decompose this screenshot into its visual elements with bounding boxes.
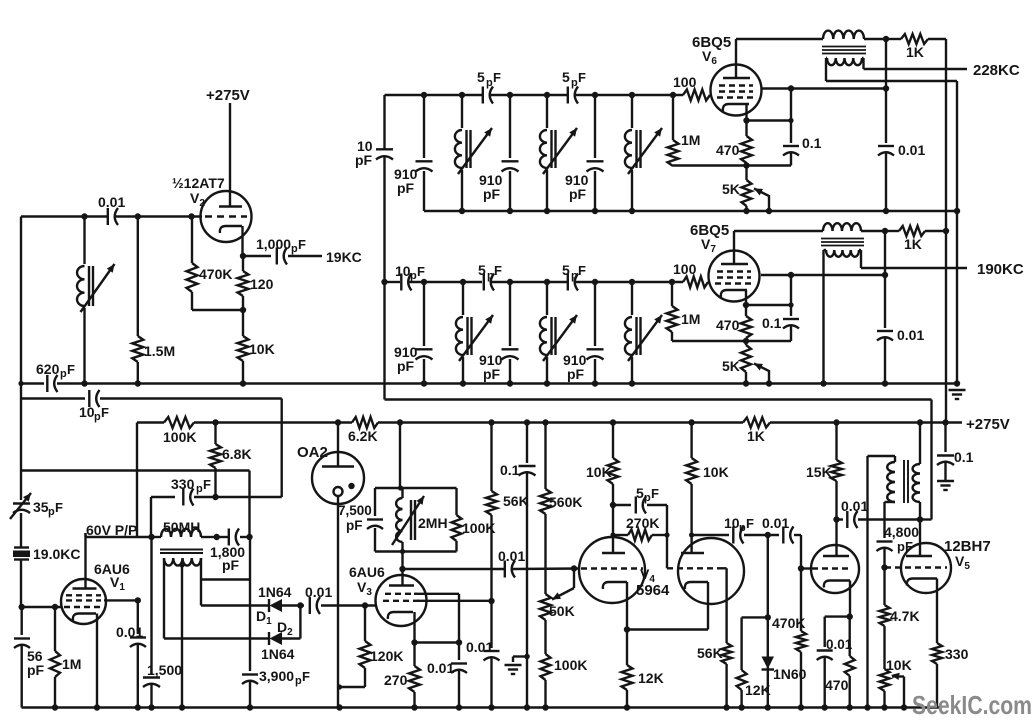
svg-text:10K: 10K — [886, 657, 912, 673]
svg-text:F: F — [203, 477, 211, 492]
svg-text:5: 5 — [562, 262, 570, 278]
svg-text:60V P/P: 60V P/P — [86, 522, 137, 538]
svg-text:10: 10 — [395, 263, 411, 279]
svg-text:+275V: +275V — [206, 87, 250, 104]
svg-text:6BQ5: 6BQ5 — [692, 34, 731, 51]
svg-text:100K: 100K — [554, 657, 587, 673]
svg-text:270: 270 — [384, 672, 408, 688]
svg-text:120: 120 — [250, 276, 274, 292]
svg-text:5: 5 — [478, 262, 486, 278]
svg-text:0.1: 0.1 — [500, 462, 520, 478]
svg-text:0.01: 0.01 — [841, 498, 868, 514]
svg-text:7,500: 7,500 — [338, 503, 372, 518]
svg-text:0.1: 0.1 — [802, 135, 822, 151]
svg-text:0.01: 0.01 — [98, 194, 125, 210]
svg-text:12K: 12K — [745, 682, 771, 698]
svg-text:0.01: 0.01 — [305, 584, 332, 600]
svg-text:6.2K: 6.2K — [348, 428, 378, 444]
svg-text:19.0KC: 19.0KC — [33, 546, 80, 562]
svg-text:p: p — [291, 243, 298, 255]
svg-text:0.01: 0.01 — [427, 660, 454, 676]
svg-text:pF: pF — [567, 366, 585, 382]
svg-text:F: F — [578, 263, 586, 278]
svg-text:F: F — [417, 264, 425, 279]
svg-text:p: p — [196, 483, 203, 495]
svg-text:10K: 10K — [703, 464, 729, 480]
svg-text:100K: 100K — [163, 429, 196, 445]
svg-text:12BH7: 12BH7 — [944, 538, 991, 555]
svg-text:1.5M: 1.5M — [144, 343, 175, 359]
svg-text:120K: 120K — [370, 648, 403, 664]
svg-text:0.01: 0.01 — [466, 639, 493, 655]
svg-text:6AU6: 6AU6 — [349, 564, 385, 580]
svg-text:6.8K: 6.8K — [222, 446, 252, 462]
svg-text:4,800: 4,800 — [884, 524, 919, 540]
svg-text:19KC: 19KC — [326, 249, 362, 265]
svg-text:5K: 5K — [722, 181, 740, 197]
svg-text:F: F — [67, 362, 75, 377]
svg-text:pF: pF — [397, 180, 415, 196]
svg-text:56K: 56K — [503, 493, 529, 509]
svg-text:470K: 470K — [199, 266, 232, 282]
svg-text:F: F — [494, 263, 502, 278]
svg-text:15K: 15K — [806, 464, 832, 480]
svg-text:+275V: +275V — [966, 416, 1010, 433]
svg-text:5: 5 — [636, 485, 644, 501]
svg-text:SeekIC.com: SeekIC.com — [912, 690, 1032, 720]
svg-text:0.1: 0.1 — [762, 315, 782, 331]
svg-text:p: p — [48, 506, 55, 518]
svg-text:pF: pF — [569, 186, 587, 202]
svg-text:pF: pF — [483, 186, 501, 202]
svg-text:pF: pF — [397, 358, 415, 374]
svg-text:p: p — [295, 675, 302, 687]
svg-text:10: 10 — [79, 404, 95, 420]
svg-text:50K: 50K — [549, 603, 575, 619]
svg-text:1N64: 1N64 — [258, 584, 292, 600]
svg-text:F: F — [746, 516, 754, 531]
svg-text:190KC: 190KC — [977, 261, 1024, 278]
svg-text:1,500: 1,500 — [147, 662, 182, 678]
svg-text:pF: pF — [27, 662, 45, 678]
svg-text:p: p — [410, 270, 417, 282]
svg-text:1K: 1K — [747, 428, 765, 444]
svg-text:0.01: 0.01 — [116, 624, 143, 640]
svg-text:p: p — [94, 411, 101, 423]
svg-text:F: F — [651, 486, 659, 501]
svg-text:4.7K: 4.7K — [890, 608, 920, 624]
svg-text:5K: 5K — [722, 358, 740, 374]
svg-text:10K: 10K — [249, 341, 275, 357]
svg-text:470: 470 — [716, 317, 740, 333]
svg-text:1K: 1K — [906, 44, 924, 60]
svg-text:0.01: 0.01 — [762, 515, 789, 531]
svg-text:330: 330 — [171, 476, 195, 492]
svg-text:12K: 12K — [638, 670, 664, 686]
svg-text:5: 5 — [477, 69, 485, 85]
svg-text:330: 330 — [945, 646, 969, 662]
svg-text:10: 10 — [724, 515, 740, 531]
svg-text:560K: 560K — [549, 494, 582, 510]
svg-text:2MH: 2MH — [418, 515, 448, 531]
svg-text:p: p — [739, 522, 746, 534]
svg-text:56K: 56K — [697, 645, 723, 661]
svg-text:OA2: OA2 — [297, 444, 328, 461]
svg-text:p: p — [644, 492, 651, 504]
svg-text:pF: pF — [483, 366, 501, 382]
svg-text:F: F — [578, 70, 586, 85]
svg-text:0.01: 0.01 — [498, 548, 525, 564]
svg-text:1M: 1M — [681, 132, 700, 148]
svg-text:100: 100 — [673, 261, 697, 277]
svg-text:5964: 5964 — [636, 582, 670, 599]
svg-text:1M: 1M — [62, 656, 81, 672]
svg-text:35: 35 — [33, 499, 49, 515]
svg-text:pF: pF — [355, 152, 373, 168]
svg-text:0.01: 0.01 — [897, 327, 924, 343]
svg-text:F: F — [298, 237, 306, 252]
svg-text:p: p — [60, 368, 67, 380]
svg-text:470: 470 — [825, 677, 849, 693]
svg-text:5: 5 — [562, 69, 570, 85]
svg-text:1K: 1K — [904, 236, 922, 252]
svg-text:470: 470 — [716, 142, 740, 158]
svg-text:½12AT7: ½12AT7 — [172, 175, 225, 191]
svg-text:p: p — [571, 77, 578, 89]
svg-text:100: 100 — [673, 74, 697, 90]
svg-text:pF: pF — [897, 539, 913, 554]
svg-text:620: 620 — [36, 361, 60, 377]
svg-text:F: F — [101, 405, 109, 420]
svg-text:F: F — [55, 500, 63, 515]
svg-text:pF: pF — [346, 518, 363, 533]
svg-text:270K: 270K — [626, 515, 659, 531]
svg-text:228KC: 228KC — [973, 62, 1020, 79]
svg-text:50MH: 50MH — [163, 519, 200, 535]
svg-text:3,900: 3,900 — [259, 668, 294, 684]
svg-text:0.01: 0.01 — [898, 142, 925, 158]
svg-text:10K: 10K — [586, 464, 612, 480]
svg-text:pF: pF — [222, 557, 240, 573]
svg-text:F: F — [493, 70, 501, 85]
svg-text:p: p — [571, 270, 578, 282]
svg-text:F: F — [302, 669, 310, 684]
svg-text:1N64: 1N64 — [261, 646, 295, 662]
svg-text:p: p — [486, 77, 493, 89]
svg-text:1M: 1M — [681, 311, 700, 327]
svg-text:0.1: 0.1 — [954, 449, 974, 465]
svg-text:1,000: 1,000 — [256, 236, 291, 252]
svg-text:p: p — [487, 270, 494, 282]
